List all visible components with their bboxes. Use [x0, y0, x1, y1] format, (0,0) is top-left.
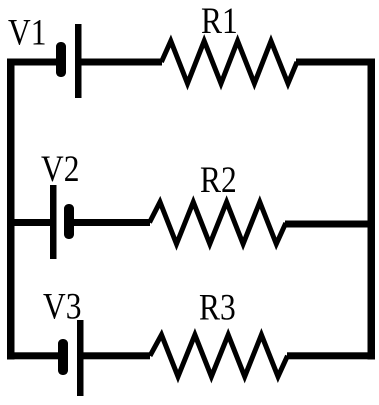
- battery V1 negative plate (short thick): [56, 42, 66, 77]
- wire: middle branch, left segment to V2: [7, 219, 51, 226]
- battery V3 negative plate (short thick): [58, 339, 68, 375]
- wire: middle branch, R2 to right bus: [285, 221, 375, 228]
- svg-text:R2: R2: [200, 160, 237, 201]
- svg-text:V2: V2: [41, 149, 79, 190]
- resistor R2 zigzag: [150, 202, 286, 244]
- svg-text:V1: V1: [8, 12, 46, 53]
- battery V2 positive plate (long thin): [50, 185, 57, 259]
- battery V3 positive plate (long thin): [77, 320, 84, 396]
- wire: middle branch, V2 to R2: [73, 219, 150, 226]
- battery V1 positive plate (long thin): [75, 24, 82, 98]
- svg-text:R3: R3: [199, 287, 236, 328]
- battery V2 negative plate (short thick): [64, 204, 74, 239]
- resistor R1 zigzag: [161, 41, 297, 84]
- wire: right vertical bus: [368, 59, 376, 360]
- wire: top branch, left segment to V1: [7, 59, 58, 66]
- svg-text:R1: R1: [201, 1, 238, 42]
- wire: top branch, R1 to right bus: [296, 59, 375, 66]
- resistor R3 zigzag: [150, 335, 288, 377]
- wire: top branch, V1 to R1: [80, 59, 162, 66]
- wire: bottom branch, R3 to right bus: [287, 352, 375, 359]
- svg-text:V3: V3: [43, 286, 81, 327]
- wire: bottom branch, left segment to V3: [7, 352, 59, 359]
- wire: bottom branch, V3 to R3: [82, 352, 150, 359]
- wire: left vertical bus: [7, 59, 15, 360]
